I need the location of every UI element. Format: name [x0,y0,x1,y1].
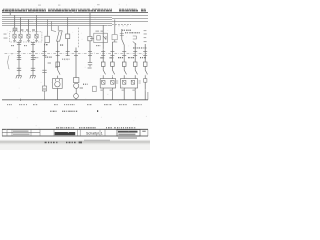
bus line X [2,18,112,20]
manufacturer logo bar [55,132,76,135]
wire stub into relay box A [14,31,16,32]
connector bar on kinked wire [120,34,124,36]
right frame stub [147,92,149,100]
title block row split [2,132,40,134]
relay J4 link wire [90,38,94,40]
switch E3 [112,66,114,78]
fuse S11 [111,62,115,66]
motor V1 circle [55,82,60,87]
connector pair X4c [42,70,46,72]
relay carrier dashed box [10,32,42,42]
wire V4r [134,43,136,62]
relay coil J3 [88,36,92,40]
under box labels [100,90,135,91]
motor V1 box [53,78,63,88]
wire left drop F [32,42,34,53]
wire Q main right riser [89,13,91,37]
bus line X right part [112,17,148,19]
rail crossing T1 [17,51,21,56]
rail crossing T3 [43,51,47,55]
wire V2r [111,42,113,62]
bus line aux [2,24,112,26]
bus line 30 [2,14,148,16]
switch cluster marks right top [133,36,137,44]
control unit J1 box [45,36,50,42]
legend labels above title block [56,127,136,128]
wire P [75,98,77,99]
resistor small right [144,79,147,83]
footer stamp text 1 [45,142,58,144]
relay K2 [19,32,22,42]
revision cells text row1 [13,130,29,132]
rail crossing T7 [88,51,92,55]
wire V5r [144,44,146,62]
wire stub C [28,19,30,32]
wire stub ignition b [52,21,57,31]
rail crossing T2 [31,51,35,56]
scanner strip below page [0,144,150,151]
wire J [57,42,59,62]
pump housing box [74,78,79,83]
wire left drop E [18,42,20,53]
wire drop to fuse S1 [14,15,16,28]
faint specks above band [38,4,100,5]
connector pair X5 [88,63,92,65]
sensor box right small [112,35,117,40]
small box mid right lower [93,86,97,91]
wire W1 [102,88,104,100]
part number text [118,131,138,133]
wire stub tick top left [9,11,11,15]
footer mark dark [79,142,82,144]
fuse S1 [13,28,17,31]
rail crossing T11 [133,51,137,55]
switch E4 [124,66,126,78]
J4 top labels [96,31,104,32]
ignition switch parallelogram [57,31,63,41]
relay J4 element [97,36,106,40]
fuse S12 [122,62,126,66]
lamp element L1a [102,80,105,84]
bus line 31 [2,20,148,22]
wire stub U [112,19,117,42]
caption labels row [50,110,98,112]
wire stub D [36,15,38,32]
wire stub H [46,31,48,37]
motor V1 leads [55,79,59,81]
top frame line [2,12,148,14]
part number box [117,130,140,137]
paper background [0,0,150,150]
lamp unit box L1 [100,79,115,88]
wire I [44,42,46,56]
fuse labels small right [100,57,113,58]
ground symbol left 1 [16,75,22,78]
relay K1 [13,32,16,42]
wire V3r [122,29,124,62]
bus line 31b [2,22,112,24]
ground symbol left 2 [30,75,36,78]
switch contact E1 [58,70,60,78]
bottom rail line [2,99,148,101]
connector pair X0b [31,43,35,45]
rail crossing T6 [74,51,78,55]
wire W5 [144,82,146,99]
rail crossing T9 [110,51,114,55]
wire M [67,17,69,56]
bottom rail tick [20,99,22,101]
title block top border [2,128,148,130]
ignition switch stem [57,26,60,42]
brace left margin [7,56,9,70]
connector pair X4 [31,65,35,75]
switch E6 [145,66,147,78]
switch E2 [103,66,105,78]
fuse amp label [48,62,51,63]
lamp cross marks 2 [123,80,135,84]
sheet number marks [142,131,145,132]
gauge circle [74,94,79,99]
footer stamp text 2 [66,142,76,144]
wire R [89,41,91,62]
fuse S14 [143,62,147,66]
fuse S2 bar [57,62,59,67]
box side ticks [116,81,141,83]
lamp element L2a [123,80,126,84]
connector pair X2 [31,56,35,65]
component legend text band [3,9,146,10]
connector pair X3 [17,65,21,75]
bus dashed segment right [112,23,131,25]
connector rail dash-dot line [5,52,148,54]
rail crossing T4 [56,51,60,56]
wire S end label [88,67,92,68]
part number subtext [118,134,135,136]
sender box lower [42,86,46,91]
bus line 15 [2,16,112,18]
wire stub B [20,17,22,32]
relay K3 [27,32,30,42]
component box J2 [66,34,70,39]
track number labels [7,104,142,105]
wire K [57,67,59,70]
sender dot [44,88,46,90]
rail crossing T12 [143,51,147,55]
connector pair X1 [17,56,21,65]
right margin labels [144,30,147,42]
label tw [55,67,58,68]
wire W4 [134,88,136,100]
lamp cross marks [102,80,115,84]
wire S [89,65,91,67]
wire W2 [111,88,113,100]
footer smudge [84,140,110,142]
relay K4 [35,32,38,42]
revision cells text row2 [13,134,30,136]
wire O [75,88,77,93]
separator dashed vertical [78,28,80,48]
connector pair X0a [17,43,21,45]
relay J4 outline [94,33,108,42]
pump motor circle [74,83,79,88]
title block vertical dividers [2,129,148,136]
bus dashed ticks [115,25,127,26]
wire stub ignition a [47,19,49,30]
wire N pump branch [75,48,77,78]
scan speckle noise [6,3,147,133]
rail crossing T5 [66,51,70,55]
wire L [56,88,58,99]
fuse S10 [101,62,105,66]
box left labels [4,34,8,39]
component reference labels [11,30,147,85]
fuse S13 [133,62,137,66]
wire V1r [102,25,104,62]
fuse S2 [56,62,60,67]
relay labels in box [13,40,38,41]
page footnote under box [118,137,137,138]
rail crossing T10 [122,51,126,55]
page bottom soft shadow edge [0,0,1,1]
lamp element L2b [131,80,134,84]
switch E5 [135,66,137,78]
pump side label [80,87,83,88]
relay carrier top labels [20,29,35,30]
lamp unit box L2 [120,79,137,88]
title block bottom border [2,135,148,137]
wire column 44 lower [44,56,46,86]
rail crossing T8 [101,51,105,55]
wire G [18,56,20,57]
wire W3 [123,88,125,100]
svg-text:Schaltpl. 1: Schaltpl. 1 [86,131,103,135]
lamp element L1b [111,80,114,84]
wire to rail [44,91,46,100]
